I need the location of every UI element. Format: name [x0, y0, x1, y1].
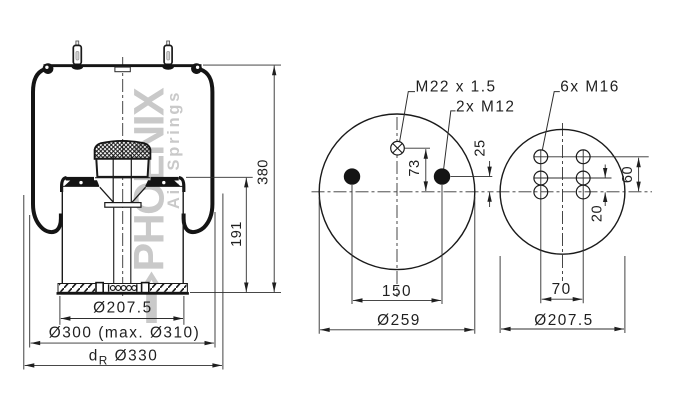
svg-text:380: 380 — [256, 159, 272, 185]
svg-text:6x M16: 6x M16 — [560, 78, 619, 95]
bead right — [191, 63, 202, 74]
dimension dia 207.5 left — [61, 318, 183, 320]
centerline horizontal view2 — [497, 191, 653, 193]
centerline vertical view1 — [396, 117, 398, 297]
bellows right wall — [184, 70, 213, 233]
centerline left view — [122, 57, 124, 298]
svg-text:2x M12: 2x M12 — [456, 98, 515, 115]
centerline horizontal view1 — [312, 191, 494, 193]
dimension dia 207.5 right — [501, 328, 624, 330]
centerline vertical view2 — [562, 123, 564, 281]
dimension 380 — [273, 66, 275, 293]
svg-text:Air Springs: Air Springs — [165, 90, 183, 209]
dimension 191 — [245, 178, 247, 292]
svg-text:60: 60 — [620, 166, 636, 183]
extension lines dia 259 — [318, 197, 320, 334]
dimension dR 330 — [25, 364, 222, 366]
pedestal — [96, 159, 148, 177]
air fitting center — [115, 67, 130, 72]
extension lines dia 300 — [29, 215, 31, 348]
hole row line 2 — [534, 177, 612, 179]
bolt hole M12 right — [434, 168, 450, 184]
svg-text:Ø207.5: Ø207.5 — [93, 300, 153, 317]
piston cylinder walls — [61, 188, 63, 284]
dimension 70 — [542, 298, 583, 300]
hole column line right — [582, 150, 584, 303]
valve M22 — [391, 141, 405, 155]
dimension dia 259 — [320, 329, 474, 331]
hole column line left — [540, 150, 542, 303]
svg-text:70: 70 — [552, 281, 572, 298]
svg-text:73: 73 — [407, 159, 423, 176]
leader 2x M12 — [444, 111, 456, 169]
dimension 150 — [353, 299, 441, 301]
extension line from right hole to 25 dim — [451, 176, 493, 178]
svg-text:25: 25 — [473, 139, 489, 156]
extension lines dia 207.5 right — [499, 256, 501, 333]
bolt column through pedestal — [112, 155, 114, 203]
extension line piston top (191) — [186, 176, 253, 178]
dimension 73 — [425, 149, 427, 191]
bolt hole M12 left — [344, 168, 360, 184]
svg-text:20: 20 — [590, 205, 606, 222]
bellows left wall — [33, 70, 61, 233]
stud left — [72, 41, 84, 70]
flange circle dia 259 — [319, 114, 475, 270]
svg-text:Ø259: Ø259 — [377, 312, 421, 329]
funnel — [100, 187, 114, 202]
leader M22 — [400, 92, 415, 142]
extension line bottom shared — [190, 292, 281, 294]
extension lines dia 207.5 left — [59, 296, 61, 325]
svg-text:150: 150 — [382, 283, 412, 300]
svg-text:M22 x 1.5: M22 x 1.5 — [416, 78, 497, 95]
extension lines dia 330 — [23, 195, 25, 370]
holes 6x M16 — [534, 150, 590, 199]
bolt flange — [105, 203, 141, 208]
hole row line 1 — [534, 156, 649, 158]
dimension 60 — [638, 158, 640, 192]
bumper dome — [95, 141, 151, 159]
dimension 20 — [590, 165, 606, 223]
extension lines from bolt holes down — [351, 185, 353, 304]
dimension 25 — [473, 139, 490, 207]
piston top plate — [62, 177, 184, 192]
bolt shaft — [113, 207, 115, 283]
piston circle dia 207.5 — [500, 129, 625, 254]
top plate — [44, 64, 202, 67]
svg-text:191: 191 — [229, 221, 245, 247]
base flange — [57, 283, 189, 295]
svg-text:Ø207.5: Ø207.5 — [534, 312, 594, 329]
leader 6x M16 — [542, 92, 560, 151]
extension from valve for 73 dim — [405, 147, 431, 149]
stud right — [162, 41, 174, 70]
extension line top (380) — [203, 64, 281, 66]
bead left — [43, 63, 54, 74]
svg-text:Ø300 (max. Ø310): Ø300 (max. Ø310) — [49, 325, 200, 342]
watermark logo arrow — [141, 272, 163, 324]
dimension dia 300 max 310 — [31, 342, 215, 344]
